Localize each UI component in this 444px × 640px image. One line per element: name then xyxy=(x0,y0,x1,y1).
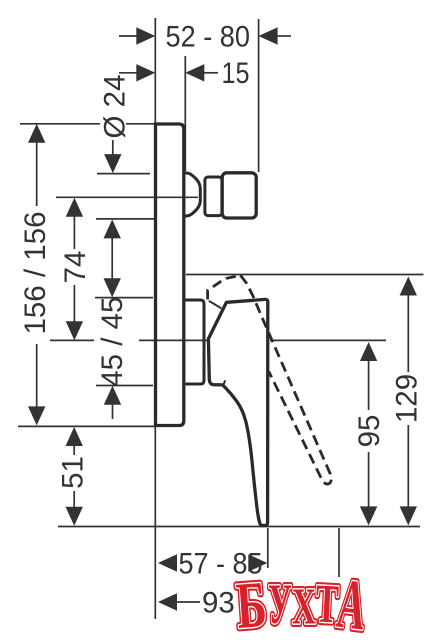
svg-text:45 / 45: 45 / 45 xyxy=(96,297,129,387)
svg-text:У: У xyxy=(268,573,292,636)
dim 52-80 right arrow xyxy=(276,35,291,37)
wall plate (escutcheon, side view) xyxy=(156,124,184,426)
knob adapter cone xyxy=(185,173,200,216)
svg-text:Х: Х xyxy=(292,579,316,636)
lever neck top edge xyxy=(209,301,222,309)
dim 45/45 lower arrow (up) xyxy=(112,402,114,419)
dim 57-85 arrows (drawn over text like target) xyxy=(158,554,267,571)
wire: knob-top horizontal extension line xyxy=(97,173,150,175)
svg-text:51: 51 xyxy=(57,456,90,489)
wire: knob-bottom horizontal extension line xyxy=(96,218,155,220)
wire: knob axis line xyxy=(56,196,198,198)
lever handle body (solid position) xyxy=(208,299,267,525)
dim 51 line + arrows xyxy=(73,443,75,455)
dim O24 upper arrow (down) xyxy=(112,140,114,156)
knob end cap xyxy=(222,173,256,218)
wire: bottom baseline xyxy=(58,526,420,528)
wire: 57-85 right vertical extension xyxy=(267,528,269,568)
wire: front-of-knob vertical extension line xyxy=(258,19,260,172)
wire: plate-bottom horizontal extension line xyxy=(18,425,156,427)
dim 95 line + arrows xyxy=(368,356,370,410)
dim 156/156 line + arrows xyxy=(36,140,38,206)
svg-text:74: 74 xyxy=(59,251,92,284)
dim 129 line + arrows xyxy=(407,291,409,372)
dim O24 lower arrow (up) + 45/45 upper arrow (down) shared line xyxy=(111,236,113,280)
wire: 93 right vertical extension xyxy=(338,528,340,577)
knob middle cylinder xyxy=(205,177,222,216)
logo BUHTA watermark xyxy=(234,565,370,640)
svg-text:93: 93 xyxy=(202,587,235,620)
wire: wall reference vertical line xyxy=(154,18,156,619)
wire: cartridge axis line xyxy=(50,339,386,341)
svg-text:52 - 80: 52 - 80 xyxy=(166,20,251,53)
dim 74 line + arrows xyxy=(73,214,75,249)
lower valve sleeve xyxy=(185,300,205,384)
dashed lever (alternate position) top cap xyxy=(208,275,241,299)
wire: sleeve-bottom horizontal extension line (45/45) xyxy=(96,385,153,387)
dashed lever (alternate position) blade xyxy=(241,275,332,484)
wire: handle-top horizontal extension line (129 dim) xyxy=(186,274,424,276)
wire: plate-front vertical extension line (15 dim) xyxy=(184,56,186,171)
svg-text:156 / 156: 156 / 156 xyxy=(19,211,52,334)
dim 15 right arrow xyxy=(203,72,218,74)
lever blade parting tick xyxy=(223,380,225,385)
dim 93 arrow + line xyxy=(176,601,200,603)
dim 52-80 left arrow xyxy=(119,35,138,37)
wire: sleeve-top horizontal extension line (45/45) xyxy=(95,297,153,299)
svg-text:Ø 24: Ø 24 xyxy=(99,75,132,139)
svg-text:129: 129 xyxy=(391,374,424,423)
dim 15 left arrow xyxy=(119,72,138,74)
svg-text:15: 15 xyxy=(222,57,250,90)
svg-text:Б: Б xyxy=(234,568,269,640)
svg-text:95: 95 xyxy=(353,415,386,448)
wire: plate-top horizontal extension line xyxy=(20,123,156,125)
